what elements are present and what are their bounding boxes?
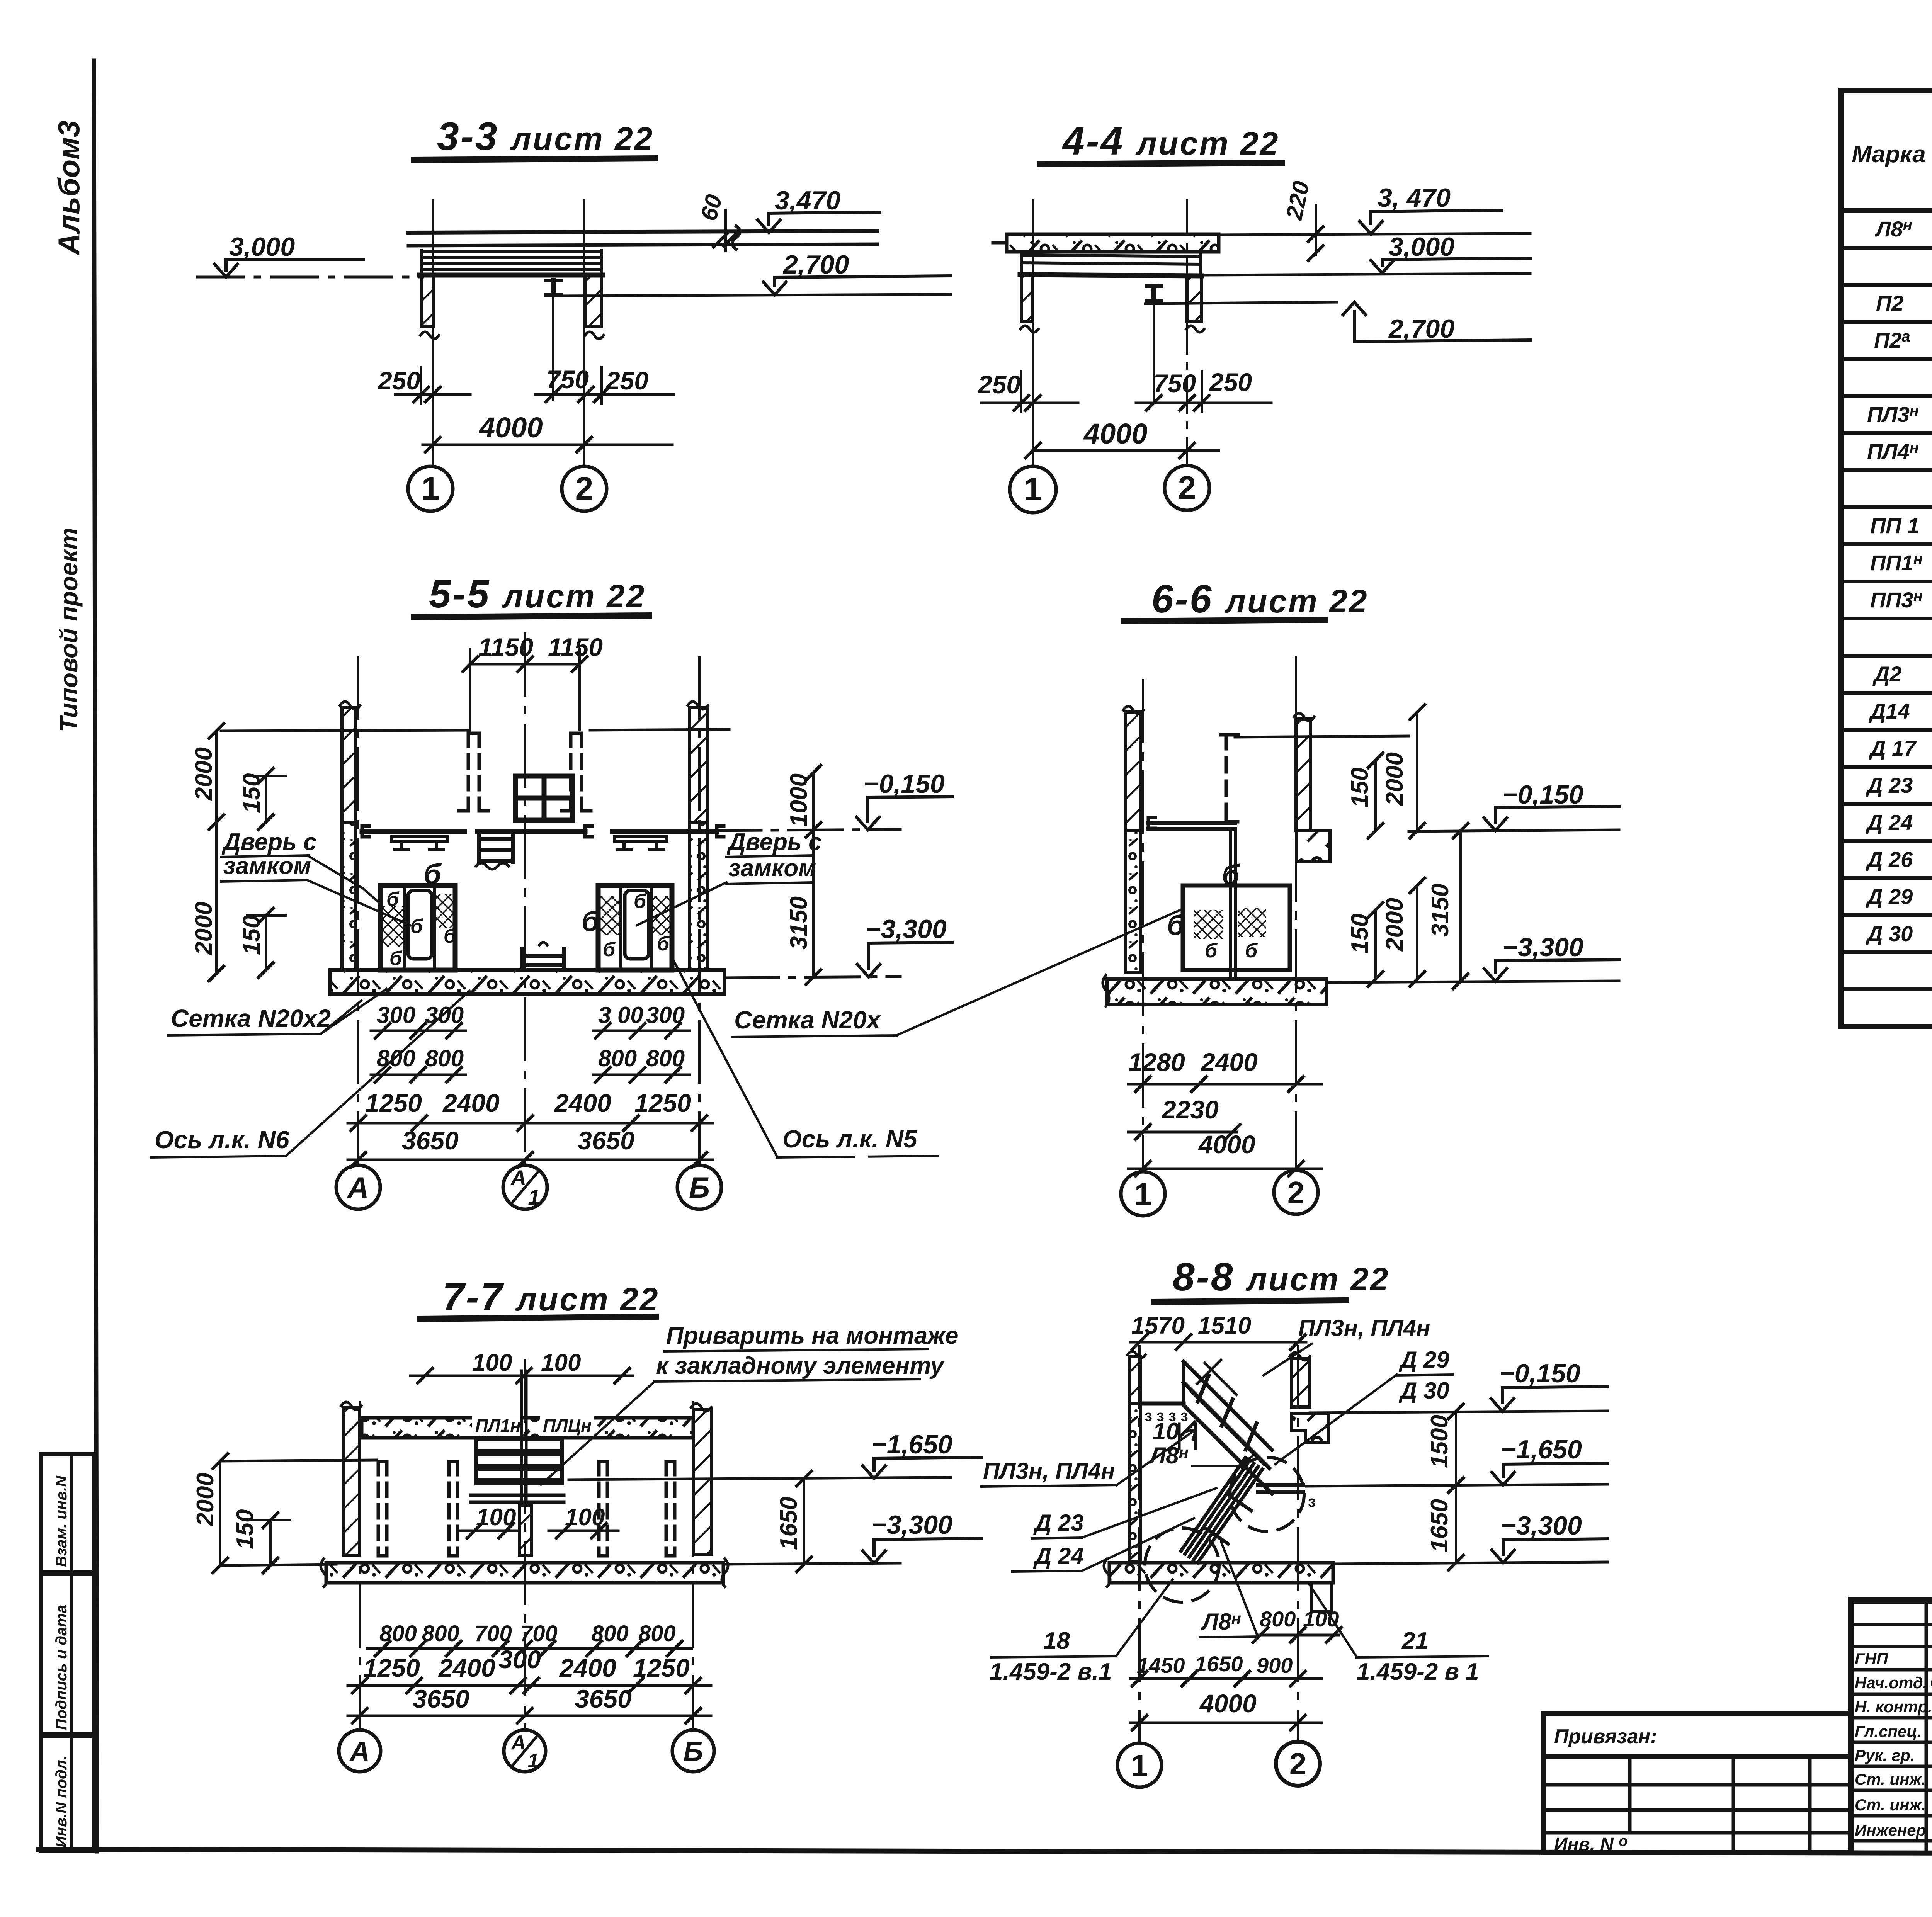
dashed frame 2	[449, 1462, 457, 1556]
svg-text:1: 1	[1131, 1748, 1148, 1783]
row Д2	[1872, 661, 1932, 687]
svg-text:Ось л.к. N6: Ось л.к. N6	[155, 1126, 289, 1154]
I-beam symbol	[546, 280, 561, 295]
level line -3,300	[1327, 981, 1619, 982]
svg-text:Приварить на монтаже: Приварить на монтаже	[666, 1322, 958, 1349]
svg-text:100: 100	[541, 1349, 581, 1376]
svg-text:−3,300: −3,300	[1501, 1511, 1582, 1540]
row П2	[1876, 290, 1932, 318]
axis 2 line	[1297, 1346, 1299, 1743]
floor left break	[1103, 975, 1109, 1006]
pit wall below floor	[1312, 1583, 1331, 1612]
row ПП1	[1870, 513, 1932, 539]
svg-text:Инв. N о: Инв. N о	[1554, 1833, 1628, 1855]
left wall break	[420, 332, 439, 339]
lower stair flight	[1181, 1458, 1262, 1563]
svg-text:1250: 1250	[363, 1654, 420, 1682]
svg-text:1570: 1570	[1131, 1312, 1185, 1339]
axis А line	[359, 1402, 361, 1730]
level line 3.000 dash-dot	[197, 276, 423, 279]
svg-text:800: 800	[422, 1621, 459, 1646]
svg-text:Б: Б	[684, 1736, 703, 1767]
svg-text:2230: 2230	[1161, 1095, 1219, 1124]
svg-text:Дверь с: Дверь с	[726, 829, 822, 855]
left wall concrete	[1129, 1404, 1141, 1562]
svg-text:3,000: 3,000	[1389, 232, 1454, 262]
svg-text:б: б	[582, 905, 600, 937]
svg-text:250: 250	[1209, 368, 1252, 396]
svg-text:б: б	[389, 947, 403, 970]
box Подпись и дата	[41, 1574, 94, 1734]
svg-text:4-4 лист 22: 4-4 лист 22	[1062, 119, 1280, 163]
svg-text:3650: 3650	[402, 1126, 459, 1155]
left border line	[94, 61, 97, 1851]
svg-text:б: б	[444, 925, 457, 947]
svg-text:Д2: Д2	[1872, 662, 1902, 686]
dashed frame 4	[666, 1462, 675, 1556]
floor layers	[421, 250, 602, 275]
svg-text:замком: замком	[728, 855, 816, 882]
left wall lower concrete	[342, 822, 356, 970]
svg-text:Типовой проект: Типовой проект	[55, 528, 83, 732]
svg-text:Дверь с: Дверь с	[221, 829, 317, 855]
svg-text:Взам. инв.N: Взам. инв.N	[53, 1475, 70, 1567]
labels ПЛ1Н ПЛЦН	[472, 1416, 523, 1436]
axis bubble Б	[672, 1730, 714, 1772]
svg-text:150: 150	[1347, 914, 1373, 953]
svg-text:3,000: 3,000	[229, 232, 295, 262]
svg-text:1280: 1280	[1128, 1048, 1185, 1076]
svg-text:2: 2	[575, 470, 594, 506]
svg-text:4000: 4000	[478, 411, 543, 444]
svg-text:−0,150: −0,150	[1499, 1359, 1580, 1388]
upper stair flight	[1184, 1361, 1272, 1494]
right wall hatched	[586, 275, 602, 326]
svg-text:б: б	[1222, 859, 1240, 891]
svg-text:Д 29: Д 29	[1866, 884, 1913, 909]
svg-text:2400: 2400	[1200, 1048, 1258, 1076]
double post to floor	[1229, 829, 1232, 979]
corner concrete piece	[1297, 831, 1330, 862]
svg-text:А: А	[510, 1732, 526, 1754]
level line -1,650	[1306, 1484, 1607, 1486]
svg-text:ГНП: ГНП	[1855, 1650, 1888, 1668]
svg-text:3650: 3650	[575, 1684, 632, 1713]
svg-text:к закладному элементу: к закладному элементу	[656, 1353, 945, 1379]
axis bubble А	[339, 1730, 381, 1772]
axis bubble 1	[1121, 1172, 1165, 1216]
bottom border line	[39, 1849, 1932, 1854]
svg-text:−0,150: −0,150	[1502, 780, 1583, 809]
left wall upper hatched	[342, 707, 356, 822]
section 7-7 title underline	[420, 1317, 656, 1319]
dashed circle at landing	[1230, 1457, 1304, 1531]
svg-text:Светличный: Светличный	[1930, 1672, 1932, 1692]
I-beam extension	[1153, 301, 1155, 402]
left wall hatched	[343, 1408, 360, 1556]
roof slab bottom line	[408, 244, 877, 246]
right corner concrete piece	[1291, 1414, 1328, 1442]
svg-text:Д 23: Д 23	[1866, 773, 1913, 797]
svg-text:1250: 1250	[365, 1089, 422, 1117]
svg-text:Б: Б	[689, 1171, 710, 1204]
svg-text:Ось л.к. N5: Ось л.к. N5	[782, 1125, 918, 1153]
axis bubble А/1	[504, 1730, 546, 1772]
section 3-3 title underline	[414, 158, 655, 160]
svg-text:А: А	[510, 1166, 526, 1190]
row П2а	[1874, 327, 1932, 353]
signature table rows	[1851, 1625, 1932, 1841]
svg-text:1.459-2 в 1: 1.459-2 в 1	[1357, 1659, 1479, 1685]
svg-text:3 00: 3 00	[598, 1002, 643, 1028]
row Д24	[1866, 809, 1932, 835]
row Д29	[1866, 884, 1932, 909]
svg-text:Инв.N подл.: Инв.N подл.	[53, 1756, 70, 1847]
floor concrete band	[1109, 1563, 1333, 1583]
svg-text:3-3 лист 22: 3-3 лист 22	[437, 114, 654, 158]
axis bubble А	[336, 1165, 380, 1209]
svg-text:1650: 1650	[1195, 1652, 1243, 1676]
svg-text:750: 750	[546, 365, 589, 394]
svg-text:3650: 3650	[578, 1126, 634, 1155]
left wall top break	[1123, 706, 1143, 714]
svg-text:100: 100	[1303, 1607, 1339, 1631]
svg-text:2000: 2000	[1381, 752, 1408, 806]
svg-text:2000: 2000	[190, 902, 217, 955]
dashed frame 3	[599, 1462, 607, 1556]
svg-text:1: 1	[1024, 471, 1042, 507]
main stamp outline	[1851, 1600, 1932, 1852]
center post double line	[520, 1371, 523, 1502]
svg-text:ПЛЦн: ПЛЦн	[543, 1416, 592, 1436]
floor layers	[1021, 252, 1200, 276]
svg-text:Д 26: Д 26	[1866, 847, 1913, 872]
svg-text:Д 29: Д 29	[1398, 1347, 1449, 1373]
ladder upper center	[476, 831, 513, 869]
row Д26	[1866, 846, 1932, 872]
axis bubble 2	[562, 466, 607, 511]
svg-text:3650: 3650	[413, 1684, 469, 1713]
axis bubble 1	[1117, 1743, 1162, 1787]
leader Дверь right	[637, 882, 726, 925]
level line 3,470	[1219, 233, 1530, 235]
svg-text:1150: 1150	[548, 633, 603, 661]
svg-text:300: 300	[377, 1002, 415, 1028]
svg-text:А: А	[349, 1736, 370, 1767]
svg-text:1000: 1000	[786, 773, 812, 827]
svg-text:1: 1	[1134, 1177, 1152, 1211]
axis bubble Б	[677, 1165, 721, 1209]
left wall hatched	[1021, 276, 1033, 321]
svg-text:1250: 1250	[634, 1089, 691, 1117]
I-beam extension line	[552, 295, 554, 400]
left level line lower	[220, 1564, 336, 1565]
row ПЛ3Н	[1867, 401, 1932, 427]
svg-text:2000: 2000	[190, 747, 217, 801]
svg-text:Привязан:: Привязан:	[1554, 1725, 1657, 1748]
svg-text:б: б	[634, 890, 647, 913]
svg-text:10: 10	[1153, 1418, 1179, 1445]
signature names	[1930, 1648, 1932, 1840]
svg-text:Д14: Д14	[1869, 699, 1910, 723]
landing double bar	[1258, 1483, 1303, 1487]
svg-text:ПЛ3н, ПЛ4н: ПЛ3н, ПЛ4н	[1298, 1315, 1430, 1341]
note leader	[541, 1382, 655, 1485]
svg-text:150: 150	[1347, 768, 1373, 807]
svg-text:Д 23: Д 23	[1033, 1510, 1084, 1536]
svg-text:Альбом3: Альбом3	[52, 121, 86, 256]
svg-text:1650: 1650	[776, 1497, 802, 1550]
svg-text:б: б	[1205, 940, 1218, 962]
dashed post	[1221, 735, 1238, 822]
svg-text:800: 800	[1260, 1607, 1296, 1631]
level line -0,150	[1409, 830, 1619, 831]
section 4-4 title underline	[1040, 163, 1282, 164]
svg-text:2400: 2400	[559, 1654, 616, 1682]
shelf double line	[1148, 817, 1155, 828]
dashed door frame left	[459, 733, 488, 811]
ceiling concrete band	[362, 1418, 693, 1438]
svg-text:2,700: 2,700	[782, 250, 849, 279]
right wall top break	[688, 702, 708, 709]
mid level line right	[569, 1477, 951, 1480]
lower hatched post	[520, 1506, 532, 1556]
svg-text:2,700: 2,700	[1388, 314, 1454, 343]
axis А line	[357, 657, 359, 1164]
svg-text:Подпись и дата: Подпись и дата	[53, 1605, 70, 1730]
section 8-8 title underline	[1155, 1300, 1345, 1302]
svg-text:б: б	[1167, 909, 1185, 941]
row Д14	[1869, 698, 1932, 724]
svg-text:Гл.спец.: Гл.спец.	[1855, 1722, 1922, 1740]
svg-text:Д 17: Д 17	[1869, 736, 1917, 760]
axis 1 line	[1142, 680, 1144, 1168]
axis line 1	[1032, 200, 1034, 466]
wall ledge line	[1141, 1402, 1184, 1406]
svg-text:2000: 2000	[192, 1473, 219, 1526]
svg-text:2000: 2000	[1381, 898, 1408, 952]
shelf line center	[478, 829, 585, 834]
section 6-6 title underline	[1124, 620, 1325, 621]
svg-text:Марка: Марка	[1852, 141, 1925, 168]
svg-text:1650: 1650	[1426, 1499, 1453, 1552]
svg-text:−3,300: −3,300	[871, 1510, 952, 1540]
upper level line right segment	[590, 729, 729, 730]
box with mesh	[1183, 885, 1290, 970]
svg-text:3,470: 3,470	[775, 186, 840, 215]
right wall hatched	[1291, 1358, 1310, 1407]
svg-text:5-5 лист 22: 5-5 лист 22	[429, 572, 646, 616]
svg-text:100: 100	[565, 1504, 605, 1531]
svg-text:Инженер: Инженер	[1855, 1821, 1926, 1839]
svg-text:2: 2	[1287, 1175, 1305, 1210]
svg-text:250: 250	[605, 366, 648, 395]
shelf line left	[362, 826, 369, 837]
level line -3,300	[1333, 1562, 1607, 1564]
dashed frame 1	[378, 1462, 387, 1556]
svg-text:−1,650: −1,650	[871, 1430, 952, 1459]
svg-text:2400: 2400	[438, 1654, 495, 1682]
box Инв.N подл.	[41, 1736, 94, 1851]
right wall hatched	[1296, 719, 1311, 831]
signature table columns	[1926, 1600, 1932, 1852]
svg-text:2400: 2400	[554, 1089, 611, 1117]
box Взам.инв.N	[41, 1454, 94, 1572]
dashed door frame right	[561, 733, 591, 811]
svg-text:250: 250	[977, 370, 1020, 399]
leader Дверь left	[307, 880, 410, 925]
axis line 2	[1186, 200, 1188, 466]
right wall hatched	[693, 1409, 712, 1554]
svg-text:900: 900	[1257, 1653, 1293, 1677]
axis bubble А/1	[503, 1165, 547, 1209]
axis 2 line	[1295, 657, 1297, 1168]
svg-text:800: 800	[638, 1621, 676, 1646]
level line 2,700	[1145, 302, 1337, 304]
row ПЛ4Н	[1867, 438, 1932, 464]
axis bubble 2	[1276, 1742, 1320, 1786]
svg-text:Сетка N20х2: Сетка N20х2	[171, 1004, 331, 1032]
left wall hatched upper	[1125, 712, 1141, 831]
axis А/1 line	[524, 1360, 526, 1730]
slab left notch	[993, 241, 1007, 245]
svg-text:з: з	[1308, 1493, 1316, 1510]
window grid 2x2	[515, 776, 573, 820]
svg-text:А: А	[347, 1171, 369, 1204]
privyazan block	[1543, 1713, 1851, 1852]
svg-text:150: 150	[232, 1509, 259, 1549]
right dim line 1000/3150	[812, 773, 815, 977]
upper level line left segment	[221, 730, 469, 731]
svg-text:б: б	[410, 915, 423, 938]
svg-text:4000: 4000	[1199, 1689, 1257, 1718]
row ПП1Н	[1870, 550, 1932, 576]
row Л8Н	[1874, 216, 1932, 242]
svg-text:3150: 3150	[1427, 884, 1454, 937]
left wall top break	[340, 702, 360, 709]
roof slab top line	[408, 231, 877, 233]
slab break mark	[732, 226, 740, 249]
svg-text:Д 24: Д 24	[1866, 810, 1913, 834]
svg-text:П2: П2	[1876, 291, 1903, 315]
rail slat stack	[476, 1439, 562, 1484]
svg-text:ПЛ3н, ПЛ4н: ПЛ3н, ПЛ4н	[983, 1458, 1115, 1484]
svg-text:4000: 4000	[1198, 1130, 1255, 1159]
floor slab thick bottom	[419, 273, 603, 278]
svg-text:800: 800	[598, 1045, 637, 1071]
floor slab thick bottom	[1020, 275, 1202, 276]
svg-text:750: 750	[1153, 369, 1196, 398]
shelf line right	[612, 829, 717, 834]
svg-text:−1,650: −1,650	[1501, 1435, 1582, 1464]
svg-text:3, 470: 3, 470	[1378, 183, 1451, 212]
floor right break	[722, 1559, 728, 1587]
svg-text:1: 1	[422, 470, 440, 506]
svg-text:2400: 2400	[442, 1089, 500, 1117]
right wall hatched	[1187, 276, 1202, 321]
section 5-5 title underline	[414, 615, 649, 617]
svg-text:Ст. инж.: Ст. инж.	[1855, 1796, 1926, 1814]
svg-text:ПЛ1н: ПЛ1н	[475, 1416, 521, 1436]
svg-text:б: б	[657, 933, 670, 955]
svg-text:8-8 лист 22: 8-8 лист 22	[1173, 1255, 1390, 1299]
stair top cross mark	[1197, 1360, 1236, 1395]
svg-text:б: б	[423, 858, 442, 890]
axis 1 line	[1138, 1346, 1141, 1743]
svg-text:800: 800	[591, 1621, 629, 1646]
row Д17	[1869, 735, 1932, 761]
svg-text:6-6 лист 22: 6-6 лист 22	[1151, 577, 1369, 621]
axis line 2	[583, 200, 585, 466]
svg-text:250: 250	[377, 366, 420, 395]
left wall hatched	[421, 275, 434, 326]
svg-text:Д 30: Д 30	[1398, 1378, 1449, 1404]
svg-text:Сетка N20х: Сетка N20х	[734, 1006, 881, 1034]
bench symbol left	[392, 837, 447, 849]
floor left break	[321, 1559, 327, 1587]
svg-text:Н. контр.: Н. контр.	[1855, 1698, 1932, 1716]
row ПП3Н	[1870, 587, 1932, 613]
locker box left	[381, 885, 455, 970]
svg-text:1.459-2 в.1: 1.459-2 в.1	[990, 1659, 1112, 1685]
svg-text:2: 2	[1178, 469, 1196, 506]
upper level line right	[1235, 736, 1409, 737]
floor concrete band	[326, 1563, 723, 1583]
svg-text:7-7 лист 22: 7-7 лист 22	[442, 1275, 660, 1319]
axis Б line	[698, 657, 701, 1164]
svg-text:800: 800	[425, 1045, 464, 1071]
level line -0,150	[1310, 1411, 1607, 1413]
svg-text:100: 100	[472, 1349, 512, 1376]
svg-text:Д 24: Д 24	[1033, 1543, 1084, 1569]
svg-text:1: 1	[528, 1185, 540, 1209]
dashed circle at base	[1145, 1528, 1219, 1602]
svg-text:Ст. инж.: Ст. инж.	[1855, 1770, 1926, 1788]
I-beam symbol	[1146, 286, 1161, 301]
svg-text:1: 1	[528, 1750, 539, 1772]
svg-text:Д 30: Д 30	[1866, 921, 1913, 946]
svg-text:300: 300	[498, 1645, 541, 1674]
svg-text:ПП 1: ПП 1	[1870, 513, 1919, 538]
svg-text:б: б	[386, 888, 400, 911]
axis bubble 1	[1010, 466, 1056, 513]
svg-text:−3,300: −3,300	[1502, 933, 1583, 962]
left wall concrete lower	[1125, 831, 1141, 972]
level line 2.700	[558, 294, 951, 296]
signature roles	[1855, 1650, 1932, 1839]
svg-text:1500: 1500	[1426, 1415, 1453, 1468]
row Д30	[1866, 921, 1932, 947]
locker box right	[598, 885, 672, 970]
concrete roof slab	[1007, 234, 1219, 252]
row Д23	[1866, 772, 1932, 798]
level line 3,000	[1202, 274, 1530, 275]
svg-text:−0,150: −0,150	[864, 769, 945, 799]
right wall upper hatched	[690, 707, 707, 822]
axis bubble 2	[1165, 466, 1209, 510]
svg-text:800: 800	[379, 1621, 417, 1646]
svg-text:3150: 3150	[786, 896, 812, 950]
bench symbol right	[614, 837, 667, 849]
floor band	[330, 970, 724, 994]
svg-text:−3,300: −3,300	[866, 914, 947, 944]
left level line upper	[220, 1460, 377, 1461]
left wall hatched top	[1129, 1357, 1141, 1404]
right wall break	[585, 332, 604, 339]
svg-text:2: 2	[1289, 1747, 1307, 1781]
svg-text:б: б	[1245, 940, 1258, 962]
base double bar	[471, 1494, 564, 1497]
